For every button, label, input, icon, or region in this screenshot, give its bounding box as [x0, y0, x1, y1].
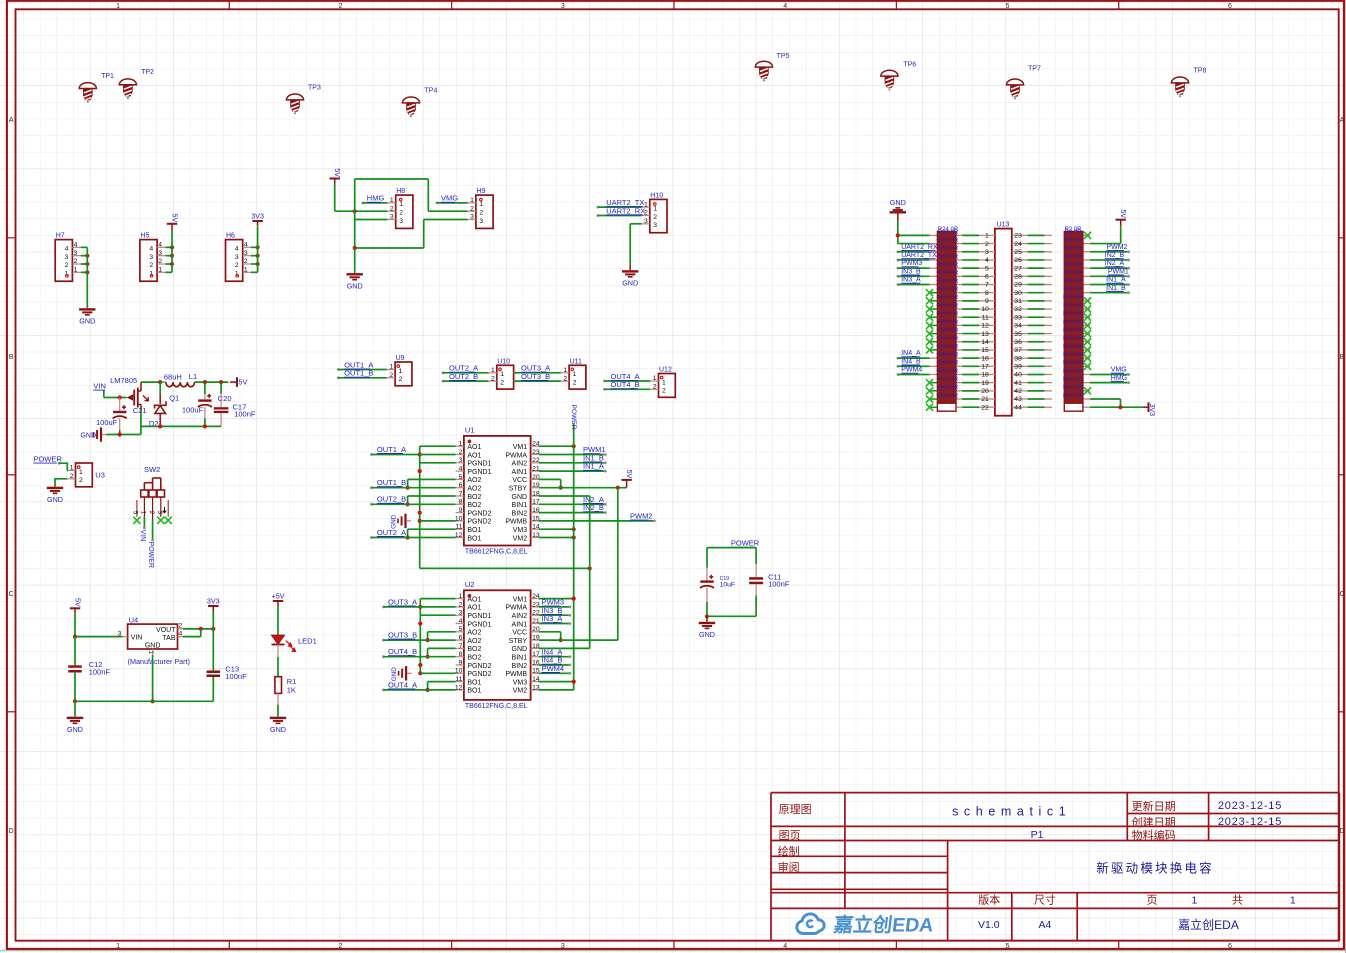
svg-text:GND: GND	[80, 433, 96, 440]
svg-text:4: 4	[985, 257, 989, 264]
svg-text:20: 20	[532, 626, 540, 633]
svg-text:LED1: LED1	[298, 637, 317, 646]
svg-text:29: 29	[1014, 282, 1022, 289]
svg-text:新驱动模块换电容: 新驱动模块换电容	[1096, 860, 1214, 875]
svg-text:3V3: 3V3	[207, 597, 220, 606]
svg-text:H10: H10	[650, 192, 663, 199]
svg-text:2: 2	[244, 258, 248, 265]
svg-text:R27 0R: R27 0R	[938, 254, 959, 260]
svg-text:3: 3	[479, 218, 483, 225]
svg-text:PGND2: PGND2	[467, 510, 491, 517]
svg-text:1: 1	[244, 267, 248, 274]
svg-text:IN1_A: IN1_A	[583, 462, 604, 471]
svg-text:12: 12	[455, 532, 463, 539]
svg-text:GND: GND	[67, 725, 83, 734]
svg-text:VM1: VM1	[513, 444, 528, 451]
svg-text:AIN1: AIN1	[512, 621, 528, 628]
svg-text:1: 1	[116, 943, 120, 950]
svg-text:5V: 5V	[74, 598, 83, 607]
svg-text:3: 3	[653, 222, 657, 229]
svg-text:21: 21	[532, 618, 540, 625]
svg-text:GND: GND	[699, 630, 715, 639]
svg-text:GND: GND	[622, 279, 638, 288]
svg-text:2: 2	[399, 376, 403, 383]
svg-text:10: 10	[981, 306, 989, 313]
svg-text:42: 42	[1014, 388, 1022, 395]
svg-text:4: 4	[459, 618, 463, 625]
svg-text:U9: U9	[396, 355, 405, 362]
svg-text:1: 1	[653, 375, 657, 382]
svg-text:R3 0R: R3 0R	[1064, 238, 1082, 244]
svg-text:页: 页	[1147, 895, 1158, 907]
svg-text:A4: A4	[1038, 919, 1051, 931]
svg-text:TP6: TP6	[903, 62, 916, 69]
svg-text:PGND2: PGND2	[467, 519, 491, 526]
svg-text:23: 23	[532, 601, 540, 608]
svg-text:20: 20	[532, 474, 540, 481]
svg-text:10uF: 10uF	[720, 582, 736, 589]
svg-text:37: 37	[1014, 347, 1022, 354]
svg-text:2023-12-15: 2023-12-15	[1218, 800, 1282, 812]
svg-text:2: 2	[500, 380, 504, 387]
svg-text:TB6612FNG,C,8,EL: TB6612FNG,C,8,EL	[465, 703, 528, 710]
svg-text:BIN2: BIN2	[512, 510, 528, 517]
svg-text:R16 0R: R16 0R	[1063, 344, 1084, 350]
svg-text:1: 1	[985, 233, 989, 240]
svg-text:3: 3	[244, 250, 248, 257]
svg-text:18: 18	[532, 643, 540, 650]
svg-text:6: 6	[459, 635, 463, 642]
svg-text:BO1: BO1	[467, 688, 481, 695]
svg-text:1: 1	[1192, 895, 1198, 907]
svg-text:1: 1	[116, 3, 120, 10]
svg-text:GND: GND	[47, 495, 63, 504]
svg-text:L1: L1	[189, 372, 197, 381]
svg-text:AO2: AO2	[467, 486, 481, 493]
svg-text:PWM1: PWM1	[1108, 268, 1129, 275]
svg-text:尺寸: 尺寸	[1034, 893, 1056, 907]
svg-text:5: 5	[1006, 3, 1010, 10]
svg-text:TP2: TP2	[141, 69, 154, 76]
svg-text:21: 21	[981, 396, 989, 403]
svg-text:1: 1	[491, 367, 495, 374]
svg-text:3: 3	[470, 214, 474, 221]
svg-text:11: 11	[455, 524, 462, 531]
svg-text:14: 14	[532, 676, 540, 683]
svg-text:TP4: TP4	[425, 88, 438, 95]
svg-text:3: 3	[985, 249, 989, 256]
svg-text:GND: GND	[347, 281, 363, 290]
svg-text:23: 23	[1014, 233, 1022, 240]
svg-text:VIN: VIN	[139, 530, 146, 542]
svg-text:2: 2	[459, 449, 463, 456]
svg-text:C20: C20	[218, 394, 232, 403]
svg-text:IN2_B: IN2_B	[1105, 252, 1125, 259]
svg-text:2023-12-15: 2023-12-15	[1218, 816, 1282, 828]
svg-text:BO1: BO1	[467, 679, 481, 686]
svg-text:5V: 5V	[625, 470, 634, 479]
svg-text:R13 0R: R13 0R	[1063, 320, 1084, 326]
svg-text:PGND1: PGND1	[467, 461, 491, 468]
svg-text:2: 2	[389, 372, 393, 379]
svg-text:19: 19	[981, 380, 989, 387]
svg-text:R15 0R: R15 0R	[1063, 336, 1084, 342]
svg-text:3: 3	[459, 457, 463, 464]
svg-text:R25 0R: R25 0R	[938, 238, 959, 244]
svg-text:33: 33	[1014, 314, 1022, 321]
svg-text:U11: U11	[570, 358, 582, 365]
svg-text:7: 7	[459, 490, 463, 497]
svg-text:R43 0R: R43 0R	[938, 385, 959, 391]
svg-text:18: 18	[532, 490, 540, 497]
svg-text:U13: U13	[997, 222, 1010, 229]
svg-text:24: 24	[532, 593, 540, 600]
svg-text:18: 18	[981, 372, 989, 379]
svg-text:3: 3	[459, 610, 463, 617]
svg-text:PGND1: PGND1	[467, 613, 491, 620]
svg-text:31: 31	[1014, 298, 1022, 305]
svg-text:审阅: 审阅	[778, 860, 800, 874]
svg-text:2: 2	[74, 258, 78, 265]
svg-text:H9: H9	[476, 188, 485, 195]
svg-text:3: 3	[65, 254, 69, 261]
svg-text:+5V: +5V	[272, 592, 285, 601]
svg-text:1: 1	[70, 465, 74, 472]
svg-text:68uH: 68uH	[164, 373, 182, 382]
svg-text:R37 0R: R37 0R	[938, 336, 959, 342]
svg-text:AIN1: AIN1	[512, 469, 528, 476]
svg-text:更新日期: 更新日期	[1132, 799, 1176, 813]
svg-text:R6 0R: R6 0R	[1064, 263, 1082, 269]
svg-text:R29 0R: R29 0R	[938, 271, 959, 277]
svg-text:GND: GND	[79, 317, 95, 326]
svg-text:R44 0R: R44 0R	[938, 393, 959, 399]
svg-text:R42 0R: R42 0R	[938, 377, 959, 383]
svg-text:U10: U10	[497, 358, 510, 365]
svg-text:VMG: VMG	[1111, 367, 1127, 374]
svg-text:R39 0R: R39 0R	[938, 353, 959, 359]
svg-text:PWMA: PWMA	[505, 452, 527, 459]
svg-text:VCC: VCC	[512, 477, 527, 484]
svg-text:7: 7	[459, 643, 463, 650]
svg-text:3: 3	[149, 254, 153, 261]
svg-text:R28 0R: R28 0R	[938, 263, 959, 269]
svg-text:38: 38	[1014, 355, 1022, 362]
svg-text:5: 5	[1006, 943, 1010, 950]
svg-text:1: 1	[389, 364, 393, 371]
svg-text:PWMB: PWMB	[505, 671, 527, 678]
svg-text:BIN1: BIN1	[512, 502, 528, 509]
svg-text:R11 0R: R11 0R	[1063, 303, 1084, 309]
svg-text:6: 6	[985, 274, 989, 281]
svg-text:共: 共	[1232, 894, 1243, 907]
svg-text:R4 0R: R4 0R	[1064, 246, 1082, 252]
svg-text:1: 1	[459, 441, 463, 448]
svg-text:4: 4	[65, 246, 69, 253]
svg-text:19: 19	[532, 482, 540, 489]
svg-text:13: 13	[532, 532, 540, 539]
svg-text:16: 16	[532, 659, 540, 666]
svg-text:2: 2	[235, 262, 239, 269]
svg-text:4: 4	[158, 242, 162, 249]
svg-text:PWM2: PWM2	[630, 512, 653, 521]
svg-text:1: 1	[390, 197, 394, 204]
svg-text:C: C	[9, 591, 14, 598]
svg-text:R40 0R: R40 0R	[938, 361, 959, 367]
svg-text:GND: GND	[145, 642, 161, 649]
svg-text:VCC: VCC	[512, 630, 527, 637]
svg-text:22: 22	[532, 610, 540, 617]
svg-text:3V3: 3V3	[251, 212, 264, 221]
svg-text:GND: GND	[890, 198, 906, 207]
svg-text:21: 21	[532, 466, 540, 473]
svg-text:5V: 5V	[333, 168, 342, 177]
svg-text:IN3_A: IN3_A	[542, 614, 563, 623]
svg-text:2: 2	[563, 375, 567, 382]
svg-text:OUT1_A: OUT1_A	[377, 445, 406, 454]
svg-text:22: 22	[532, 457, 540, 464]
svg-text:OUT2_B: OUT2_B	[377, 495, 406, 504]
svg-text:1: 1	[653, 206, 657, 213]
svg-text:R31 0R: R31 0R	[938, 287, 959, 293]
svg-text:3: 3	[399, 218, 403, 225]
svg-text:TP7: TP7	[1028, 66, 1041, 73]
svg-text:V1.0: V1.0	[978, 919, 1000, 931]
svg-text:(Manufacturer Part): (Manufacturer Part)	[128, 657, 190, 666]
svg-text:VIN: VIN	[93, 382, 106, 391]
svg-text:8: 8	[459, 651, 463, 658]
svg-text:3: 3	[561, 3, 565, 10]
svg-text:5: 5	[459, 626, 463, 633]
svg-text:R5 0R: R5 0R	[1064, 254, 1082, 260]
svg-text:1: 1	[459, 593, 463, 600]
svg-text:嘉立创EDA: 嘉立创EDA	[831, 914, 934, 937]
svg-text:OUT1_B: OUT1_B	[377, 478, 406, 487]
svg-text:24: 24	[1014, 241, 1022, 248]
svg-text:3: 3	[561, 943, 565, 950]
svg-text:R41 0R: R41 0R	[938, 369, 959, 375]
svg-text:H6: H6	[226, 233, 235, 240]
svg-text:P1: P1	[1031, 829, 1044, 841]
svg-text:4: 4	[235, 246, 239, 253]
svg-text:图页: 图页	[779, 829, 801, 842]
svg-text:1: 1	[479, 201, 483, 208]
svg-text:2: 2	[70, 473, 74, 480]
svg-text:2: 2	[573, 380, 577, 387]
svg-text:AO1: AO1	[467, 452, 481, 459]
svg-text:POWER: POWER	[34, 455, 63, 464]
svg-text:R32 0R: R32 0R	[938, 295, 959, 301]
svg-text:AIN2: AIN2	[512, 461, 528, 468]
svg-text:R36 0R: R36 0R	[938, 328, 959, 334]
svg-text:24: 24	[532, 441, 540, 448]
svg-text:BO2: BO2	[467, 502, 481, 509]
svg-text:PGND2: PGND2	[467, 663, 491, 670]
svg-text:嘉立创EDA: 嘉立创EDA	[1178, 917, 1239, 932]
svg-text:13: 13	[981, 331, 989, 338]
svg-text:35: 35	[1014, 331, 1022, 338]
svg-text:34: 34	[1014, 323, 1022, 330]
svg-text:Q1: Q1	[169, 393, 179, 402]
svg-text:H7: H7	[56, 233, 65, 240]
svg-text:OUT4_B: OUT4_B	[611, 380, 640, 389]
svg-text:VIN: VIN	[131, 634, 143, 641]
svg-text:8: 8	[985, 290, 989, 297]
svg-text:100nF: 100nF	[89, 668, 111, 677]
svg-text:版本: 版本	[978, 893, 1000, 907]
svg-text:R10 0R: R10 0R	[1063, 295, 1084, 301]
svg-text:R35 0R: R35 0R	[938, 320, 959, 326]
svg-text:100nF: 100nF	[768, 580, 790, 589]
svg-text:PWM2: PWM2	[1106, 244, 1127, 251]
svg-text:H8: H8	[396, 188, 405, 195]
svg-text:23: 23	[532, 449, 540, 456]
svg-text:PWM3: PWM3	[901, 260, 922, 267]
svg-text:5V: 5V	[239, 378, 248, 387]
svg-text:16: 16	[532, 507, 540, 514]
svg-text:绘制: 绘制	[778, 844, 800, 858]
svg-text:30: 30	[1014, 290, 1022, 297]
svg-text:VM2: VM2	[513, 535, 528, 542]
svg-text:PWM4: PWM4	[542, 664, 565, 673]
svg-text:32: 32	[1014, 306, 1022, 313]
svg-text:5: 5	[985, 265, 989, 272]
svg-text:BO2: BO2	[467, 646, 481, 653]
svg-text:IN4_B: IN4_B	[901, 358, 921, 365]
svg-text:H5: H5	[140, 233, 149, 240]
svg-text:AO2: AO2	[467, 477, 481, 484]
svg-text:3: 3	[235, 254, 239, 261]
svg-text:8: 8	[459, 499, 463, 506]
svg-text:原理图: 原理图	[779, 803, 812, 816]
svg-text:13: 13	[532, 684, 540, 691]
svg-text:15: 15	[532, 515, 540, 522]
svg-text:VOUT: VOUT	[156, 627, 176, 634]
svg-text:BO1: BO1	[467, 535, 481, 542]
svg-text:AO1: AO1	[467, 596, 481, 603]
svg-text:R38 0R: R38 0R	[938, 344, 959, 350]
svg-text:3: 3	[390, 214, 394, 221]
svg-text:IN1_B: IN1_B	[1106, 285, 1126, 292]
svg-text:HMG: HMG	[1111, 375, 1127, 382]
svg-text:R17 0R: R17 0R	[1063, 353, 1084, 359]
svg-text:VM1: VM1	[513, 596, 528, 603]
svg-text:2: 2	[653, 214, 657, 221]
svg-text:schematic1: schematic1	[952, 805, 1071, 819]
svg-text:100uF: 100uF	[182, 406, 204, 415]
svg-text:STBY: STBY	[509, 638, 528, 645]
svg-text:14: 14	[532, 524, 540, 531]
svg-text:R2 0R: R2 0R	[1064, 227, 1082, 233]
svg-text:R34 0R: R34 0R	[938, 312, 959, 318]
svg-text:17: 17	[532, 499, 540, 506]
svg-text:1: 1	[500, 371, 504, 378]
svg-text:POWER: POWER	[147, 542, 154, 568]
svg-text:1: 1	[158, 267, 162, 274]
svg-text:VMG: VMG	[441, 194, 458, 203]
svg-text:15: 15	[532, 668, 540, 675]
svg-text:PWM4: PWM4	[901, 367, 922, 374]
svg-text:2: 2	[470, 205, 474, 212]
svg-text:14: 14	[981, 339, 989, 346]
svg-text:TAB: TAB	[162, 635, 175, 642]
svg-text:1: 1	[399, 368, 403, 375]
svg-text:6: 6	[1228, 3, 1232, 10]
svg-text:17: 17	[532, 651, 540, 658]
svg-text:GND: GND	[512, 646, 528, 653]
svg-text:22: 22	[981, 404, 989, 411]
svg-text:GND: GND	[270, 725, 286, 734]
svg-text:OUT2_B: OUT2_B	[449, 372, 478, 381]
svg-text:28: 28	[1014, 274, 1022, 281]
svg-text:9: 9	[459, 659, 463, 666]
svg-text:12: 12	[455, 684, 463, 691]
svg-text:36: 36	[1014, 339, 1022, 346]
svg-text:16: 16	[981, 355, 989, 362]
svg-text:U1: U1	[465, 425, 475, 434]
svg-text:2: 2	[339, 3, 343, 10]
svg-text:2: 2	[653, 384, 657, 391]
svg-text:11: 11	[982, 314, 989, 321]
svg-text:U3: U3	[95, 471, 105, 480]
svg-text:GND: GND	[512, 494, 528, 501]
svg-text:39: 39	[1014, 363, 1022, 370]
svg-text:VM3: VM3	[513, 527, 528, 534]
svg-text:IN4_A: IN4_A	[901, 350, 921, 357]
svg-text:1: 1	[399, 201, 403, 208]
svg-text:BIN1: BIN1	[512, 655, 528, 662]
svg-text:19: 19	[532, 635, 540, 642]
svg-text:R20 0R: R20 0R	[1063, 377, 1084, 383]
svg-text:AIN2: AIN2	[512, 613, 528, 620]
svg-text:3: 3	[74, 250, 78, 257]
svg-text:1: 1	[1290, 895, 1296, 907]
svg-text:100uF: 100uF	[96, 418, 118, 427]
svg-text:15: 15	[981, 347, 989, 354]
svg-text:10: 10	[455, 668, 463, 675]
svg-text:BIN2: BIN2	[512, 663, 528, 670]
svg-text:R24 0R: R24 0R	[938, 227, 959, 233]
svg-text:2: 2	[985, 241, 989, 248]
svg-text:6: 6	[459, 482, 463, 489]
svg-text:TB6612FNG,C,8,EL: TB6612FNG,C,8,EL	[465, 548, 528, 555]
svg-text:4: 4	[783, 943, 787, 950]
svg-text:U2: U2	[465, 580, 475, 589]
svg-text:IN2_A: IN2_A	[1105, 260, 1125, 267]
svg-text:STBY: STBY	[509, 486, 528, 493]
svg-text:1: 1	[563, 367, 567, 374]
svg-text:3: 3	[644, 218, 648, 225]
svg-text:1: 1	[74, 267, 78, 274]
svg-text:2: 2	[79, 477, 83, 484]
svg-text:1: 1	[470, 197, 474, 204]
svg-text:12: 12	[981, 323, 989, 330]
svg-text:OUT3_B: OUT3_B	[388, 631, 417, 640]
svg-text:2: 2	[479, 210, 483, 217]
svg-text:SW2: SW2	[144, 465, 160, 474]
svg-text:100nF: 100nF	[234, 409, 256, 418]
svg-text:PWMA: PWMA	[505, 605, 527, 612]
svg-text:VM2: VM2	[513, 688, 528, 695]
svg-text:1: 1	[662, 379, 666, 386]
svg-text:R18 0R: R18 0R	[1063, 361, 1084, 367]
svg-text:2: 2	[65, 262, 69, 269]
svg-text:IN3_B: IN3_B	[901, 268, 921, 275]
svg-text:2: 2	[459, 601, 463, 608]
svg-text:2: 2	[390, 205, 394, 212]
svg-text:创建日期: 创建日期	[1132, 815, 1176, 829]
svg-text:PGND1: PGND1	[467, 621, 491, 628]
